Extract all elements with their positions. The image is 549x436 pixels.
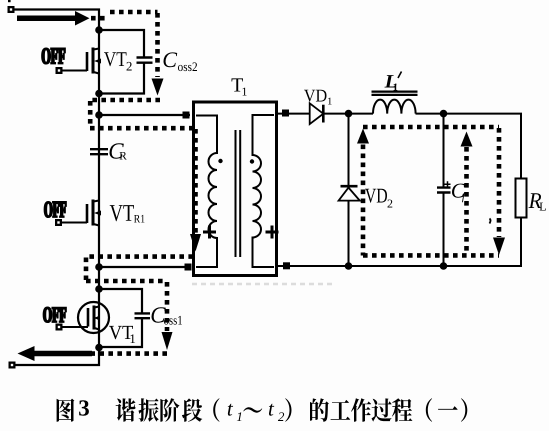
- current exit arrow (bottom left): [34, 351, 92, 357]
- scan artifact tick top edge: [8, 0, 11, 2]
- wire: half-bridge midpoint to transformer primary top: [99, 114, 190, 116]
- label OFF (VT2 gate): [42, 48, 65, 63]
- capacitor CF polarity plus: [445, 181, 451, 187]
- caption: figure 3 resonant stage (t1-t2) working process (1): [57, 398, 468, 422]
- label CR subscript R: [120, 152, 127, 160]
- junction dot VD2 bottom: [345, 262, 353, 270]
- label VT2: [104, 52, 127, 66]
- label VD1 subscript 1: [328, 98, 332, 105]
- gate terminal VT1: [56, 324, 63, 331]
- capacitor Coss1 branch wires: [99, 289, 142, 313]
- primary + mark: [203, 226, 216, 239]
- capacitor CF branch wire: [443, 114, 445, 266]
- primary polarity dot: [218, 159, 222, 163]
- label RL: [529, 193, 542, 208]
- capacitor Coss1 plates: [135, 313, 151, 318]
- secondary polarity dot: [250, 159, 254, 163]
- transformer primary winding: [196, 116, 217, 268]
- label Coss1 subscript: [164, 316, 182, 325]
- label OFF (VT1 gate): [44, 307, 67, 322]
- gate terminal VT2: [56, 67, 63, 74]
- label VT1 subscript 1: [131, 334, 136, 343]
- label VD2 subscript 2: [388, 200, 393, 208]
- inductor L1 core bars: [372, 92, 418, 95]
- stray comma mark: [490, 219, 491, 224]
- input terminal (top left): [8, 6, 15, 13]
- wire: secondary top to VD1: [277, 113, 310, 115]
- label OFF (VTR1 gate): [45, 202, 67, 217]
- transistor VT R1 (MOSFET, off): [62, 200, 101, 226]
- label VTR1 subscript R1: [134, 215, 145, 223]
- junction dot CF bottom: [440, 262, 448, 270]
- diode VD2 branch wire: [348, 114, 350, 266]
- label L1 prime tick: [398, 72, 402, 79]
- label CR: [110, 143, 124, 158]
- label CF: [452, 184, 465, 198]
- scan artifact faint dashes: [192, 283, 333, 285]
- transformer secondary winding: [253, 115, 275, 267]
- input terminal (bottom left): [9, 362, 16, 369]
- transformer T1 box: [194, 102, 277, 276]
- transformer terminal square top-left: [183, 112, 190, 119]
- dotted arrow into Coss1: [162, 332, 173, 350]
- gate terminal VT R1: [55, 219, 62, 226]
- label CF subscript: [462, 192, 466, 202]
- dotted path: primary bottom to Coss1: [86, 257, 193, 331]
- label VT1: [109, 326, 133, 339]
- capacitor CR plates: [90, 149, 108, 154]
- wire: L1 to top right corner, down right edge: [416, 114, 522, 179]
- junction dot VD2 top: [345, 110, 353, 118]
- diode VD1: [310, 103, 324, 124]
- dotted path: Coss2 bottom to transformer primary: [90, 100, 196, 233]
- dotted arrow into Coss2: [152, 79, 164, 96]
- label Coss1: [152, 307, 166, 322]
- dotted path: entry to Coss2: [91, 12, 158, 77]
- dotted arrow down transformer primary: [190, 234, 201, 252]
- junction dot CF top: [440, 110, 448, 118]
- label VT2 subscript 2: [127, 62, 132, 71]
- junction dots on left bus: [95, 26, 103, 34]
- label T1: [232, 78, 244, 91]
- transformer terminal square bottom-left: [185, 264, 192, 271]
- wire: top input rail: [14, 10, 99, 31]
- label T1 subscript 1: [243, 88, 247, 96]
- wire: right edge below RL to bottom rail, back to transformer: [277, 218, 522, 267]
- diode VD2: [341, 185, 358, 188]
- label L1 subscript 1: [394, 84, 398, 91]
- wire: left main vertical bus: [15, 30, 99, 365]
- label L1: [385, 75, 397, 87]
- transformer terminal square top-right: [282, 110, 289, 117]
- label VD1: [304, 90, 327, 102]
- capacitor Coss2 branch wires: [99, 30, 144, 57]
- label Coss2 subscript: [178, 62, 197, 71]
- dotted arrow up (inner branch): [461, 132, 473, 147]
- transistor VT1 (MOSFET in circle, off): [62, 302, 109, 333]
- wire: primary bottom return: [99, 266, 190, 268]
- dotted arrow down (loop right): [493, 238, 505, 256]
- dotted arrow up (loop left): [357, 129, 369, 144]
- label VTR1: [110, 205, 134, 221]
- transformer core lines: [236, 130, 241, 257]
- dotted loop secondary: top edge: [363, 127, 499, 256]
- dotted path: Coss1 to exit: [92, 351, 167, 356]
- resistor RL body: [516, 179, 527, 218]
- label Coss2: [164, 52, 178, 67]
- transformer terminal square bottom-right: [283, 262, 290, 269]
- secondary + mark: [266, 226, 279, 239]
- transistor VT2 (MOSFET, off): [62, 48, 101, 74]
- label VD2: [365, 189, 387, 203]
- inductor L1 coil: [373, 100, 416, 114]
- label RL subscript L: [540, 203, 546, 211]
- capacitor Coss2 plates: [137, 58, 153, 63]
- wire: VD1 to L1: [323, 113, 373, 115]
- capacitor CF plates: [437, 188, 451, 193]
- current entry arrow (top left): [17, 15, 76, 21]
